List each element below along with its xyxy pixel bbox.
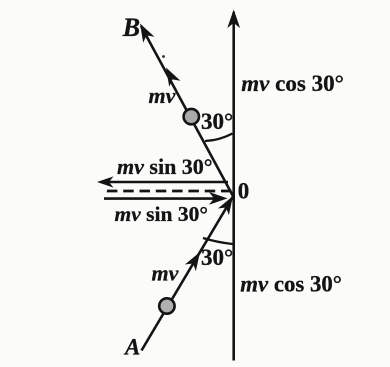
svg-text:A: A [123, 335, 140, 360]
svg-text:mv cos 30°: mv cos 30° [241, 71, 343, 96]
svg-text:0: 0 [238, 179, 250, 204]
svg-text:mv: mv [152, 261, 179, 286]
svg-text:mv cos 30°: mv cos 30° [240, 271, 342, 296]
svg-text:B: B [122, 13, 140, 42]
svg-text:mv sin 30°: mv sin 30° [117, 154, 213, 179]
svg-text:mv: mv [149, 83, 176, 108]
svg-text:mv sin 30°: mv sin 30° [115, 202, 208, 226]
svg-text:30°: 30° [201, 109, 233, 134]
svg-text:30°: 30° [201, 245, 233, 270]
